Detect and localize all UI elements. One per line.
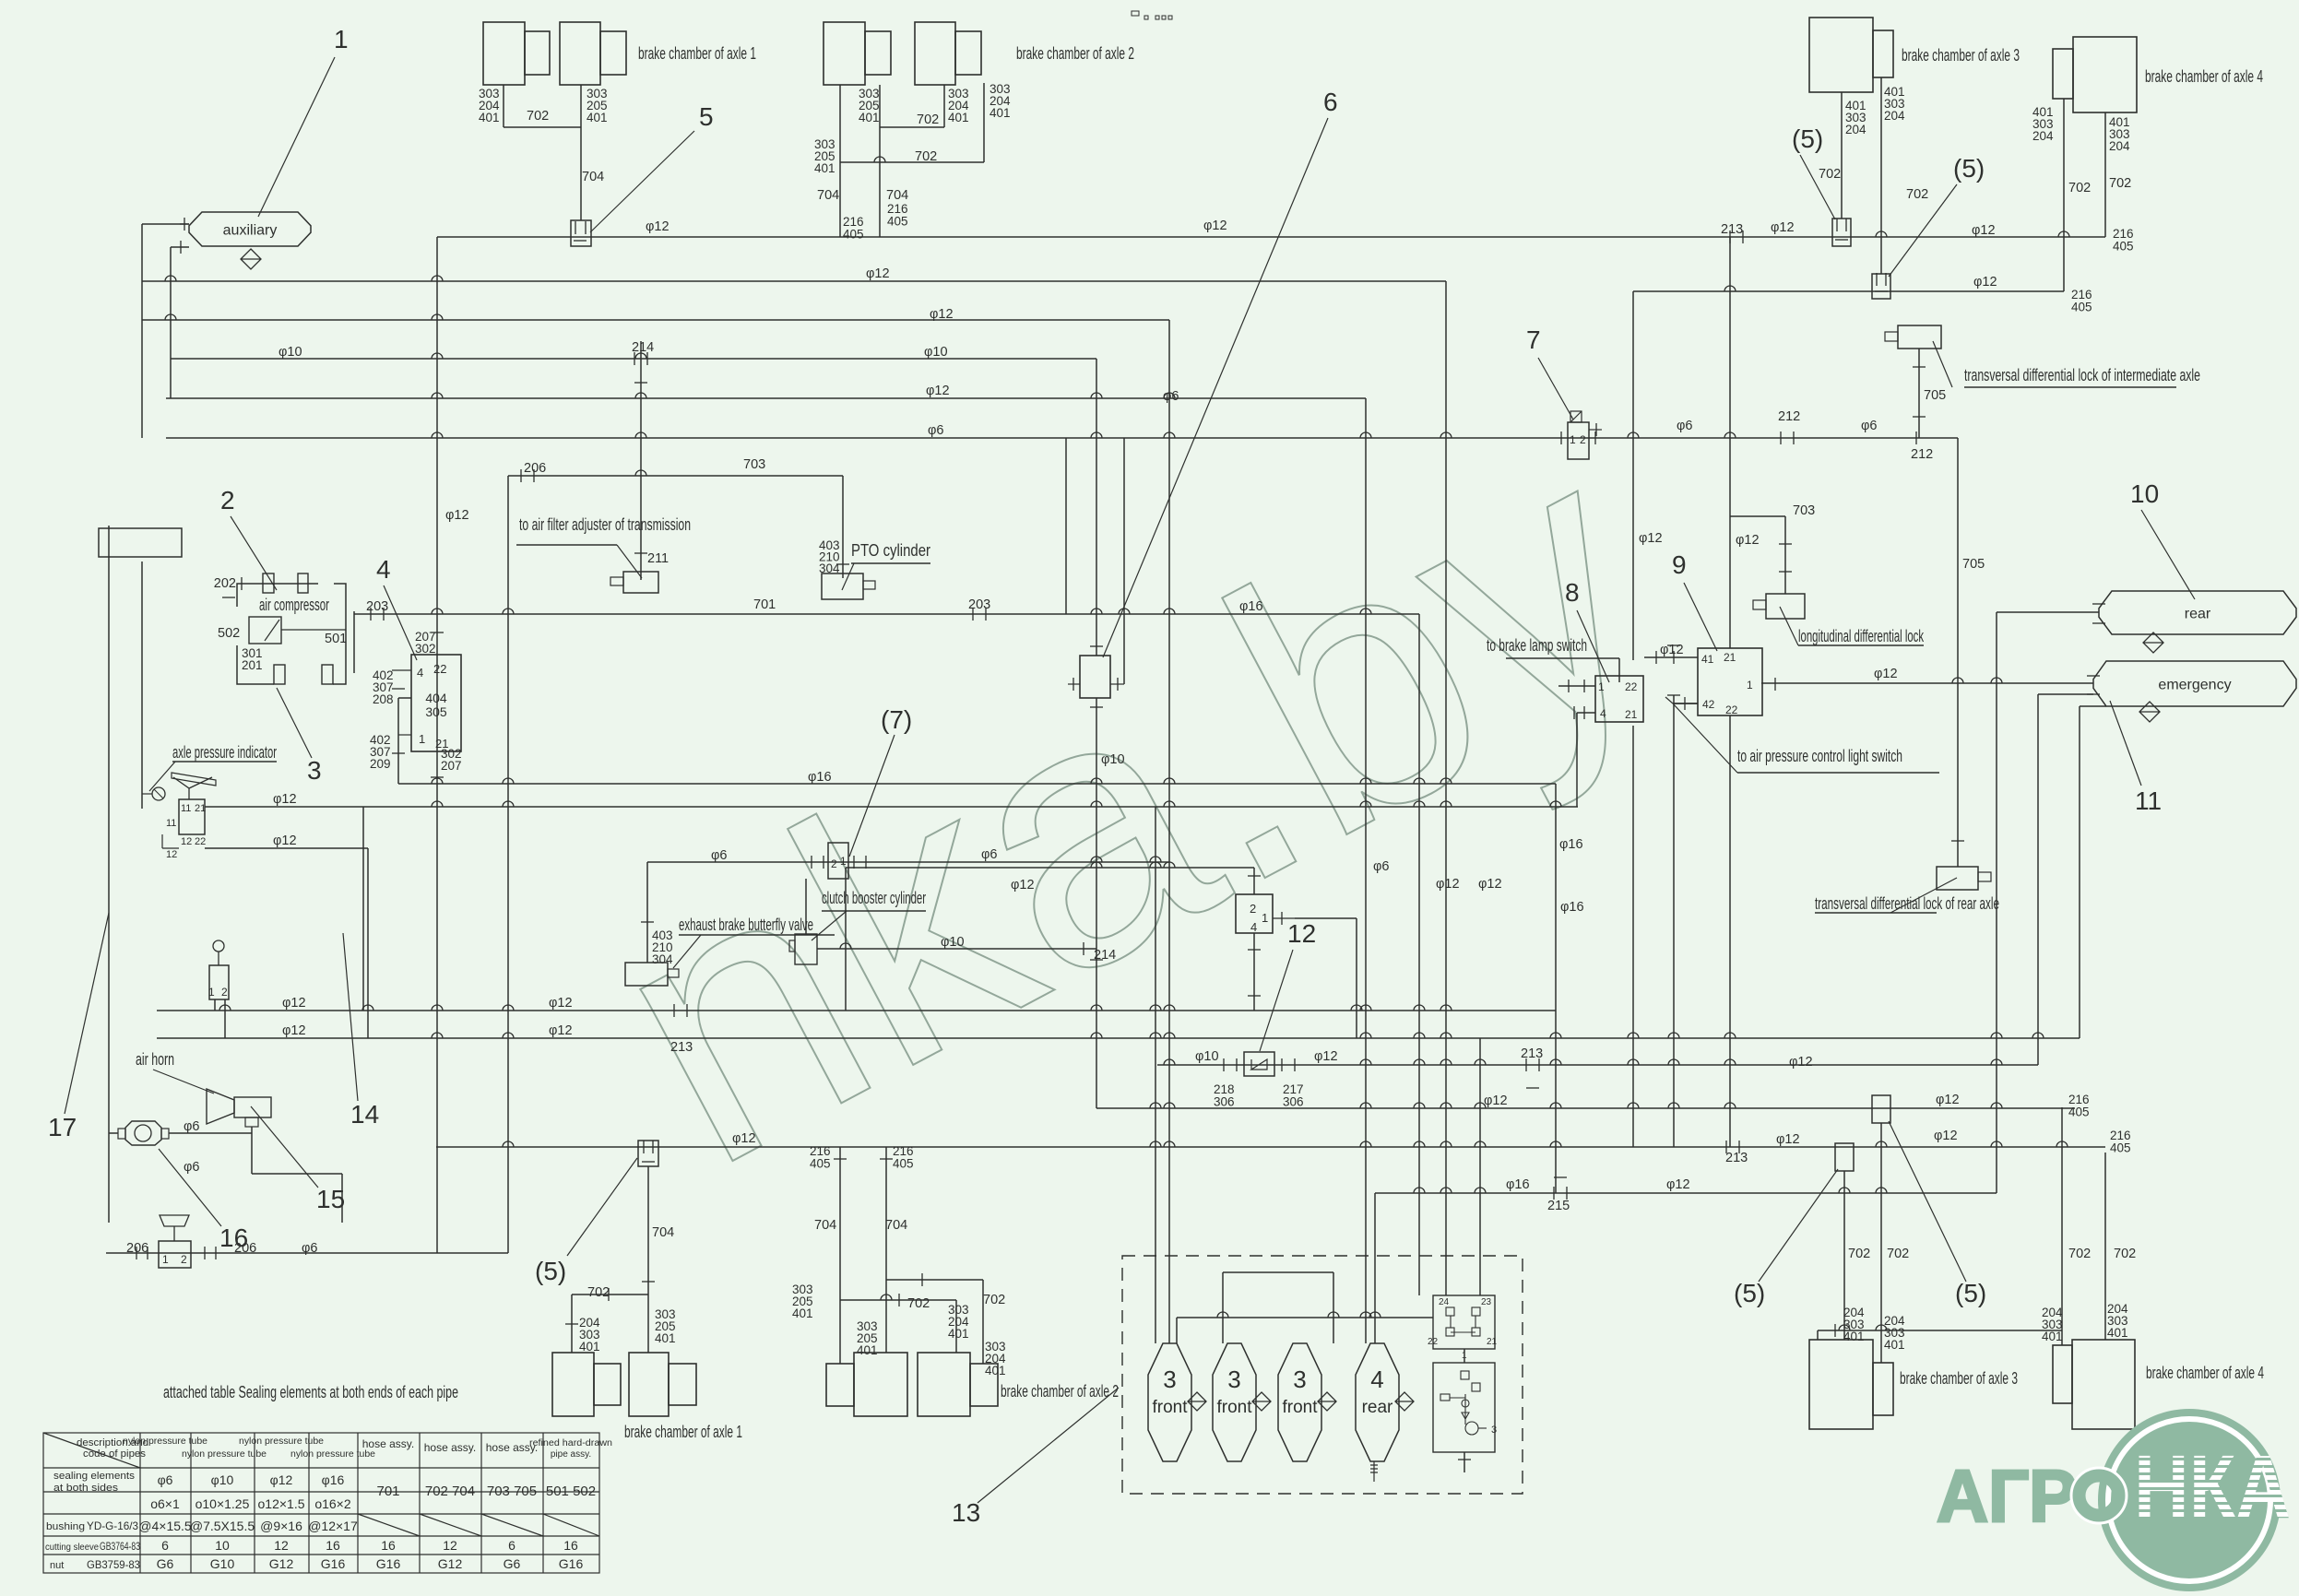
svg-text:401: 401 xyxy=(2042,1330,2063,1343)
svg-text:brake chamber of axle 3: brake chamber of axle 3 xyxy=(1902,46,2020,65)
wire xyxy=(170,247,172,398)
svg-text:brake chamber of axle 1: brake chamber of axle 1 xyxy=(624,1423,742,1441)
leader (5) E xyxy=(1889,1121,1966,1282)
svg-text:5: 5 xyxy=(699,102,714,131)
wire xyxy=(845,868,847,1011)
pipe bus phi12 lower B xyxy=(157,1037,2080,1039)
svg-text:401: 401 xyxy=(857,1343,878,1357)
four-circuit protection valve U4 xyxy=(411,655,461,751)
svg-text:φ10: φ10 xyxy=(941,935,965,950)
svg-text:φ16: φ16 xyxy=(322,1472,345,1487)
wire xyxy=(1065,438,1067,614)
svg-text:702: 702 xyxy=(2114,1247,2136,1261)
svg-text:404: 404 xyxy=(425,691,447,705)
svg-text:22: 22 xyxy=(195,836,206,847)
svg-text:7: 7 xyxy=(1526,325,1541,354)
svg-text:4: 4 xyxy=(1600,707,1606,720)
leader (5) D xyxy=(1759,1169,1838,1282)
svg-text:702: 702 xyxy=(1819,167,1841,182)
wire rear tank riser xyxy=(1996,612,1997,1193)
wire chamber2b drop 704 xyxy=(879,85,881,237)
brake chamber of axle 1 bottom B xyxy=(629,1353,696,1416)
leader air filter xyxy=(617,545,642,578)
svg-text:208: 208 xyxy=(373,692,394,706)
pipe to emergency tank port2 xyxy=(2038,693,2093,695)
svg-text:401: 401 xyxy=(948,1327,969,1341)
svg-text:φ12: φ12 xyxy=(1973,275,1997,290)
longitudinal differential lock xyxy=(1753,594,1805,619)
svg-text:φ12: φ12 xyxy=(1934,1129,1958,1143)
svg-text:209: 209 xyxy=(370,757,391,771)
svg-text:sealing elements: sealing elements xyxy=(53,1471,136,1482)
pipe bus 2 xyxy=(142,280,1446,282)
drain symbol xyxy=(2139,702,2160,722)
svg-text:@9×16: @9×16 xyxy=(260,1519,302,1533)
svg-text:front: front xyxy=(1152,1398,1188,1417)
wire xyxy=(392,669,411,671)
wire 702 chamber4 top xyxy=(2063,99,2065,291)
svg-text:15: 15 xyxy=(316,1185,345,1213)
leader exhaust brake xyxy=(673,935,701,968)
svg-text:704: 704 xyxy=(652,1225,674,1240)
wire chamber1a drop xyxy=(503,85,504,127)
svg-text:401: 401 xyxy=(814,161,835,175)
wire 704 axle2 bottom a xyxy=(839,1147,841,1364)
svg-text:703: 703 xyxy=(1793,503,1815,518)
wire xyxy=(1356,918,1357,1038)
pipe bus phi12 no5 xyxy=(166,397,1366,399)
wire tank front1 feed A xyxy=(1155,807,1156,1343)
drain symbol xyxy=(1252,1392,1271,1411)
wire compressor outlet xyxy=(353,611,355,673)
wire valve14 top run xyxy=(846,867,1254,869)
rear tank xyxy=(2099,591,2296,634)
wire xyxy=(1110,683,1124,685)
svg-text:φ12: φ12 xyxy=(282,1023,306,1038)
svg-text:204: 204 xyxy=(1884,109,1905,123)
wire xyxy=(398,697,411,699)
wire indicator drop A xyxy=(362,807,364,1011)
one-way valve (5) bottom B xyxy=(1835,1143,1854,1171)
svg-text:401: 401 xyxy=(587,111,608,124)
svg-text:φ6: φ6 xyxy=(981,847,997,862)
wire xyxy=(1589,429,1602,431)
drain symbol xyxy=(241,249,261,269)
exhaust brake butterfly valve xyxy=(625,963,679,986)
svg-text:202: 202 xyxy=(214,576,236,591)
brake chamber of axle 2 unit B xyxy=(915,22,981,85)
svg-text:22: 22 xyxy=(433,662,446,676)
rear axle tank 4 xyxy=(1356,1343,1399,1461)
svg-text:1: 1 xyxy=(208,986,215,999)
svg-text:12: 12 xyxy=(166,849,177,860)
svg-text:φ12: φ12 xyxy=(646,219,670,234)
svg-text:213: 213 xyxy=(670,1040,693,1055)
svg-text:22: 22 xyxy=(1625,680,1638,693)
svg-text:9: 9 xyxy=(1672,550,1687,579)
svg-text:1: 1 xyxy=(419,732,425,746)
svg-text:φ12: φ12 xyxy=(273,792,297,807)
wire tank front3 feed xyxy=(1365,398,1367,1343)
svg-text:702: 702 xyxy=(1906,187,1928,202)
svg-text:φ12: φ12 xyxy=(1314,1049,1338,1064)
wire phi6 drop to exhaust valve xyxy=(646,862,648,963)
wire 703 drop right xyxy=(1784,516,1786,594)
svg-text:1: 1 xyxy=(1570,433,1576,446)
AGRO NKA logo xyxy=(1937,1409,2291,1591)
svg-text:φ6: φ6 xyxy=(711,848,727,863)
svg-text:(5): (5) xyxy=(1734,1279,1765,1307)
svg-text:2: 2 xyxy=(221,986,228,999)
svg-text:nut: nut xyxy=(50,1560,64,1571)
throttle valve U12 xyxy=(1244,1052,1274,1076)
wire valve6 down phi10 xyxy=(1096,698,1097,1108)
wire 702 chamber3b top xyxy=(1880,77,1882,274)
relay valve U6 xyxy=(1080,656,1110,698)
svg-text:21: 21 xyxy=(195,803,206,814)
svg-text:4: 4 xyxy=(1250,920,1257,934)
svg-text:206: 206 xyxy=(524,461,546,476)
svg-text:φ6: φ6 xyxy=(1861,419,1877,433)
svg-text:304: 304 xyxy=(819,562,840,575)
wire bus2 riser to assembly xyxy=(1445,281,1447,1295)
svg-text:4: 4 xyxy=(376,555,391,584)
svg-text:704: 704 xyxy=(817,188,839,203)
drain symbol xyxy=(1188,1392,1206,1411)
svg-text:nylon pressure tube: nylon pressure tube xyxy=(290,1449,375,1460)
svg-text:G12: G12 xyxy=(438,1556,463,1571)
svg-text:φ12: φ12 xyxy=(1874,667,1898,681)
pressure regulator valve U9 xyxy=(1698,648,1762,715)
svg-text:PTO cylinder: PTO cylinder xyxy=(851,541,930,560)
svg-text:401: 401 xyxy=(948,111,969,124)
svg-text:to brake lamp switch: to brake lamp switch xyxy=(1487,636,1587,655)
wire riser valve6 xyxy=(1096,359,1097,656)
svg-text:21: 21 xyxy=(1625,708,1638,721)
svg-text:φ10: φ10 xyxy=(924,345,948,360)
one-way valve U5 xyxy=(571,220,591,246)
svg-text:nylon pressure tube: nylon pressure tube xyxy=(182,1449,267,1460)
svg-text:213: 213 xyxy=(1721,222,1743,237)
svg-text:702: 702 xyxy=(527,109,549,124)
svg-text:702: 702 xyxy=(1887,1247,1909,1261)
svg-text:НКА: НКА xyxy=(2134,1436,2291,1537)
wire xyxy=(1068,683,1080,685)
wire right riser B xyxy=(1673,695,1675,1147)
svg-text:401: 401 xyxy=(985,1364,1006,1377)
svg-text:502: 502 xyxy=(218,626,240,641)
wire xyxy=(1273,917,1295,919)
wire PTO drop xyxy=(842,476,844,578)
svg-text:φ6: φ6 xyxy=(928,423,943,438)
pipe 702 axle1 link xyxy=(504,126,581,128)
wire valve14 to riser xyxy=(1295,917,1357,919)
wire xyxy=(1176,1318,1178,1343)
wire valve4 port xyxy=(397,698,399,784)
svg-text:G6: G6 xyxy=(504,1556,521,1571)
svg-text:401: 401 xyxy=(1884,1338,1905,1352)
pipe from indicator port22 xyxy=(205,847,368,849)
svg-text:405: 405 xyxy=(2113,240,2134,254)
svg-text:6: 6 xyxy=(508,1538,515,1553)
svg-text:207: 207 xyxy=(441,759,462,773)
wire xyxy=(109,1132,118,1134)
clutch booster cylinder xyxy=(789,934,817,964)
wire b1a riser xyxy=(571,1295,573,1353)
brake chamber of axle 2 bottom B xyxy=(918,1353,998,1416)
svg-text:305: 305 xyxy=(425,704,447,719)
svg-text:2: 2 xyxy=(220,486,235,514)
svg-text:to air filter adjuster of tran: to air filter adjuster of transmission xyxy=(519,515,691,534)
wire phi16 riser xyxy=(1555,784,1557,1193)
svg-text:702: 702 xyxy=(983,1293,1005,1307)
pipe to emergency tank port3 xyxy=(2080,705,2106,707)
wire between assemblies xyxy=(1464,1349,1465,1363)
svg-text:attached table Sealing elem: attached table Sealing elements at both … xyxy=(163,1383,458,1401)
svg-text:704: 704 xyxy=(814,1218,836,1233)
svg-text:φ6: φ6 xyxy=(184,1119,199,1134)
pipe phi16 mid xyxy=(398,783,1556,785)
svg-text:1: 1 xyxy=(1747,679,1753,692)
svg-text:501 502: 501 502 xyxy=(546,1484,596,1499)
svg-text:rear: rear xyxy=(1362,1398,1393,1417)
leader air pressure switch xyxy=(1673,703,1737,773)
svg-text:φ12: φ12 xyxy=(1936,1093,1960,1107)
pipe to rear tank xyxy=(1997,611,2099,613)
svg-text:701: 701 xyxy=(376,1484,399,1499)
pipe crossover bumps xyxy=(165,157,2069,1330)
wire xyxy=(141,224,143,438)
svg-text:2: 2 xyxy=(1250,902,1256,916)
svg-text:21: 21 xyxy=(1724,651,1736,664)
svg-text:12: 12 xyxy=(274,1538,289,1553)
wire xyxy=(162,847,179,849)
svg-text:704: 704 xyxy=(582,170,604,184)
wire xyxy=(171,246,189,248)
svg-text:o10×1.25: o10×1.25 xyxy=(196,1496,250,1511)
leader (7) xyxy=(849,735,895,857)
svg-text:405: 405 xyxy=(843,228,864,242)
wire 702 b2 link xyxy=(840,1299,956,1301)
svg-text:φ16: φ16 xyxy=(1559,837,1583,852)
svg-text:φ12: φ12 xyxy=(1972,223,1996,238)
svg-text:o6×1: o6×1 xyxy=(150,1496,180,1511)
svg-text:φ12: φ12 xyxy=(1736,533,1760,548)
leader transversal rear xyxy=(1890,878,1957,913)
svg-text:φ10: φ10 xyxy=(1195,1049,1219,1064)
parking hand valve xyxy=(159,1215,191,1268)
leader transversal inter xyxy=(1933,341,1952,387)
svg-text:701: 701 xyxy=(753,597,776,612)
brake chamber of axle 4 bottom xyxy=(2053,1340,2135,1429)
wire xyxy=(679,934,835,936)
svg-text:10: 10 xyxy=(215,1538,230,1553)
svg-text:o12×1.5: o12×1.5 xyxy=(258,1496,305,1511)
wire emergency riser B xyxy=(2079,706,2080,1038)
pipe bus throttle xyxy=(1157,1064,2038,1066)
svg-text:clutch booster cylinder: clutch booster cylinder xyxy=(822,889,926,907)
pipe phi10 exhaust xyxy=(817,948,1096,950)
svg-text:exhaust brake butterfly valve: exhaust brake butterfly valve xyxy=(679,916,813,934)
svg-text:24: 24 xyxy=(1439,1297,1450,1307)
svg-text:o16×2: o16×2 xyxy=(314,1496,351,1511)
svg-text:hose assy.: hose assy. xyxy=(424,1441,476,1454)
svg-text:12: 12 xyxy=(1287,919,1316,948)
svg-text:hose assy.: hose assy. xyxy=(362,1437,414,1450)
svg-text:206: 206 xyxy=(126,1241,148,1256)
wire xyxy=(1730,515,1785,517)
wire 705 long xyxy=(1957,438,1959,867)
svg-text:nylon pressure tube: nylon pressure tube xyxy=(239,1436,324,1447)
wire brake lamp link xyxy=(1618,658,1620,682)
svg-text:12: 12 xyxy=(443,1538,457,1553)
leader PTO xyxy=(842,563,854,590)
svg-text:401: 401 xyxy=(792,1306,813,1320)
svg-text:brake chamber of axle 3: brake chamber of axle 3 xyxy=(1900,1369,2018,1388)
wire xyxy=(224,999,226,1038)
svg-text:1: 1 xyxy=(334,25,349,53)
wire xyxy=(1964,386,2176,388)
svg-text:702: 702 xyxy=(587,1285,610,1300)
auxiliary tank xyxy=(189,212,311,246)
hand brake valve U14 xyxy=(1236,894,1273,933)
pipe phi6 clutch xyxy=(647,861,1169,863)
wire indicator drop B xyxy=(367,848,369,1038)
pipe phi12 long mid xyxy=(205,806,1578,808)
svg-text:401: 401 xyxy=(990,106,1011,120)
front axle tank 3 xyxy=(1278,1343,1321,1461)
svg-text:212: 212 xyxy=(1911,447,1933,462)
svg-text:705: 705 xyxy=(1924,388,1946,403)
svg-text:213: 213 xyxy=(1725,1151,1748,1165)
svg-text:(5): (5) xyxy=(1953,154,1985,183)
protection valve assembly upper xyxy=(1433,1295,1495,1349)
wire right riser A lower xyxy=(1632,726,1634,1147)
svg-text:22: 22 xyxy=(1725,703,1738,716)
wire xyxy=(1464,1452,1465,1472)
pipe valve8 port4 xyxy=(1577,712,1595,714)
wire xyxy=(214,999,216,1011)
front axle tank 2 xyxy=(1213,1343,1256,1461)
wire xyxy=(1479,1038,1481,1295)
svg-text:brake chamber of axle 4: brake chamber of axle 4 xyxy=(2146,1364,2264,1382)
transversal differential lock of rear axle xyxy=(1937,867,1991,890)
wire 702 chamber4b top xyxy=(2104,112,2106,237)
pipe valve9 port41 xyxy=(1644,656,1698,658)
wire right riser A upper xyxy=(1632,291,1634,660)
svg-text:transversal differential lock: transversal differential lock of interme… xyxy=(1964,366,2200,384)
plot artifacts top xyxy=(1132,11,1172,19)
svg-text:42: 42 xyxy=(1702,698,1715,711)
pipe bus phi12 lower D xyxy=(436,1146,2105,1148)
svg-text:206: 206 xyxy=(234,1241,256,1256)
drain symbol xyxy=(2143,632,2163,653)
svg-text:φ10: φ10 xyxy=(278,345,302,360)
svg-text:@7.5X15.5: @7.5X15.5 xyxy=(190,1519,255,1533)
svg-text:φ10: φ10 xyxy=(211,1472,234,1487)
svg-text:3: 3 xyxy=(1293,1365,1306,1393)
svg-text:401: 401 xyxy=(655,1331,676,1345)
wire xyxy=(1815,912,1937,914)
leader air horn xyxy=(153,1070,214,1094)
svg-text:14: 14 xyxy=(350,1100,379,1129)
wire to assembly xyxy=(1177,1317,1433,1318)
svg-text:φ12: φ12 xyxy=(1789,1055,1813,1070)
wire valve8 drop xyxy=(1576,713,1578,807)
brake chamber of axle 2 unit A xyxy=(824,22,891,85)
wire xyxy=(172,761,277,763)
svg-text:air compressor: air compressor xyxy=(259,596,329,614)
svg-text:302: 302 xyxy=(415,642,436,656)
wire 704 drop bottom left xyxy=(647,1166,649,1353)
wire b34 link xyxy=(1818,1330,2062,1331)
svg-text:16: 16 xyxy=(326,1538,340,1553)
svg-text:2: 2 xyxy=(831,857,837,870)
svg-text:φ6: φ6 xyxy=(302,1241,317,1256)
wire xyxy=(180,223,189,225)
wire xyxy=(1673,703,1698,704)
check valve U7 xyxy=(1568,422,1589,459)
drain valve under tank 4 xyxy=(1370,1461,1378,1482)
pipe bus phi16 to tanks xyxy=(1375,1192,1997,1194)
svg-text:702: 702 xyxy=(2109,176,2131,191)
svg-text:at both sides: at both sides xyxy=(53,1483,119,1494)
wire xyxy=(1737,772,1939,774)
svg-text:G6: G6 xyxy=(157,1556,174,1571)
svg-text:16: 16 xyxy=(381,1538,396,1553)
svg-text:G12: G12 xyxy=(269,1556,294,1571)
svg-text:φ12: φ12 xyxy=(549,1023,573,1038)
pipe bus phi6 xyxy=(166,437,1958,439)
wire horn feed xyxy=(169,1132,252,1134)
svg-text:401: 401 xyxy=(859,111,880,124)
svg-text:φ6: φ6 xyxy=(1373,859,1389,874)
svg-text:203: 203 xyxy=(366,599,388,614)
svg-text:YD-G-16/3: YD-G-16/3 xyxy=(87,1519,138,1532)
svg-text:G16: G16 xyxy=(559,1556,584,1571)
svg-text:φ12: φ12 xyxy=(273,833,297,848)
svg-text:(5): (5) xyxy=(1792,124,1823,153)
svg-text:code of pipes: code of pipes xyxy=(83,1448,147,1460)
pipe 701 bus xyxy=(354,613,1419,615)
svg-text:702: 702 xyxy=(915,149,937,164)
wire chamber1b drop 704 xyxy=(580,85,582,220)
brake chamber of axle 1 bottom A xyxy=(552,1353,621,1416)
svg-text:501: 501 xyxy=(325,632,347,646)
svg-text:φ12: φ12 xyxy=(445,508,469,523)
svg-text:6: 6 xyxy=(161,1538,169,1553)
main pipe bus phi12 top xyxy=(437,236,2105,238)
svg-text:405: 405 xyxy=(2071,301,2092,314)
svg-text:21: 21 xyxy=(1487,1337,1498,1347)
svg-text:703: 703 xyxy=(743,457,765,472)
svg-text:φ12: φ12 xyxy=(1639,531,1663,546)
pipe 702 axle2 linkA xyxy=(880,126,944,128)
wire horn loop xyxy=(341,1174,343,1223)
pipe bus phi12 lower A xyxy=(157,1010,1556,1011)
svg-text:704: 704 xyxy=(885,1218,907,1233)
wire horn drop xyxy=(251,1127,253,1174)
air horn xyxy=(207,1089,271,1127)
protection valve assembly lower xyxy=(1433,1363,1495,1452)
svg-text:702: 702 xyxy=(2068,1247,2091,1261)
wire valve14 down xyxy=(1253,933,1255,1011)
svg-text:6: 6 xyxy=(1323,88,1338,116)
hand control valve xyxy=(209,940,229,999)
drain symbol xyxy=(1395,1392,1414,1411)
svg-text:3: 3 xyxy=(307,756,322,785)
svg-text:longitudinal differential lock: longitudinal differential lock xyxy=(1798,627,1925,645)
